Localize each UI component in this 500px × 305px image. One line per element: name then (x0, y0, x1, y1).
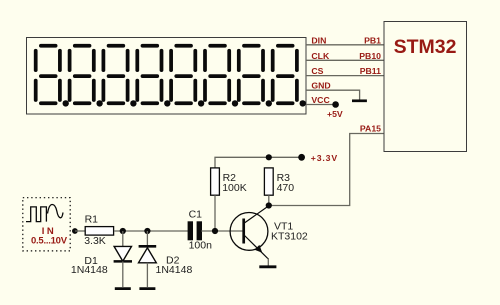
ground symbol near display (352, 99, 367, 102)
wire +3.3V rail (215, 157, 302, 168)
wire CS to PB11 (306, 75, 384, 77)
svg-text:CS: CS (311, 66, 323, 76)
junction dot collector node (266, 202, 272, 208)
node +3.3V terminal dot (298, 154, 305, 161)
svg-text:1N4148: 1N4148 (156, 264, 193, 276)
display digit 8 (8.) (273, 46, 306, 107)
svg-text:470: 470 (277, 182, 295, 194)
svg-text:KT3102: KT3102 (271, 231, 308, 243)
svg-text:VCC: VCC (311, 95, 330, 105)
input source box IN (23, 198, 70, 251)
input terminal dot (72, 228, 78, 234)
STM32 box U1 (384, 22, 467, 152)
wire R1 to C1 (114, 230, 188, 232)
svg-text:R1: R1 (85, 213, 99, 225)
display digit 7 (8.) (239, 46, 272, 107)
display digit 1 (8.) (36, 46, 69, 107)
svg-text:100K: 100K (222, 182, 247, 194)
svg-text:1N4148: 1N4148 (71, 264, 108, 276)
display digit 4 (8.) (137, 46, 170, 107)
svg-text:STM32: STM32 (394, 36, 457, 58)
ground symbol D1 (115, 287, 131, 290)
svg-text:C1: C1 (189, 208, 203, 220)
svg-text:PB10: PB10 (359, 51, 381, 61)
wire D2 to ground (146, 263, 148, 287)
wire VCC to +5V (306, 104, 336, 106)
wire emitter to ground (267, 258, 269, 266)
ground symbol D2 (139, 287, 155, 290)
svg-text:3.3K: 3.3K (84, 235, 106, 247)
resistor R3 (264, 168, 273, 195)
display module box (27, 38, 307, 115)
junction dot D2 (144, 228, 150, 234)
svg-text:100n: 100n (189, 239, 213, 251)
svg-text:PB11: PB11 (360, 66, 381, 76)
wire PA15 to R3/VT1 collector node (269, 134, 384, 206)
svg-text:GND: GND (311, 81, 330, 91)
resistor R2 (211, 168, 220, 195)
resistor R1 (85, 227, 113, 236)
svg-text:PA15: PA15 (360, 124, 381, 134)
square wave glyph (26, 207, 46, 222)
wire input to R1 (75, 230, 85, 232)
wire R2 bottom to signal node (214, 195, 216, 231)
svg-text:PB1: PB1 (364, 36, 381, 46)
sine wave glyph (48, 204, 64, 217)
wire DIN to PB1 (306, 44, 384, 46)
wire GND net (306, 90, 360, 99)
diode D1 (114, 246, 132, 261)
wire CLK to PB10 (306, 59, 384, 61)
node +5V terminal dot (332, 101, 339, 108)
junction dot R3 top (266, 154, 272, 160)
wire D1 to ground (122, 261, 124, 287)
capacitor C1 (188, 221, 202, 240)
svg-text:DIN: DIN (311, 36, 326, 46)
diode D2 (139, 246, 157, 262)
display digit 6 (8.) (205, 46, 238, 107)
wire D1 top (122, 231, 124, 247)
display digit 5 (8.) (171, 46, 204, 107)
wire R3 bottom to collector node (268, 195, 270, 205)
junction dot base node (212, 228, 218, 234)
svg-text:0.5...10V: 0.5...10V (31, 235, 68, 246)
display digit 3 (8.) (103, 46, 136, 107)
wire D2 top (146, 231, 148, 246)
transistor VT1 KT3102 (230, 206, 269, 259)
display digit 2 (8.) (70, 46, 103, 107)
junction dot D1 (120, 228, 126, 234)
wire C1 to base node (201, 230, 243, 232)
svg-text:+5V: +5V (327, 109, 343, 119)
ground symbol emitter (259, 265, 276, 268)
svg-text:CLK: CLK (311, 51, 330, 61)
svg-text:+3.3V: +3.3V (311, 153, 338, 163)
